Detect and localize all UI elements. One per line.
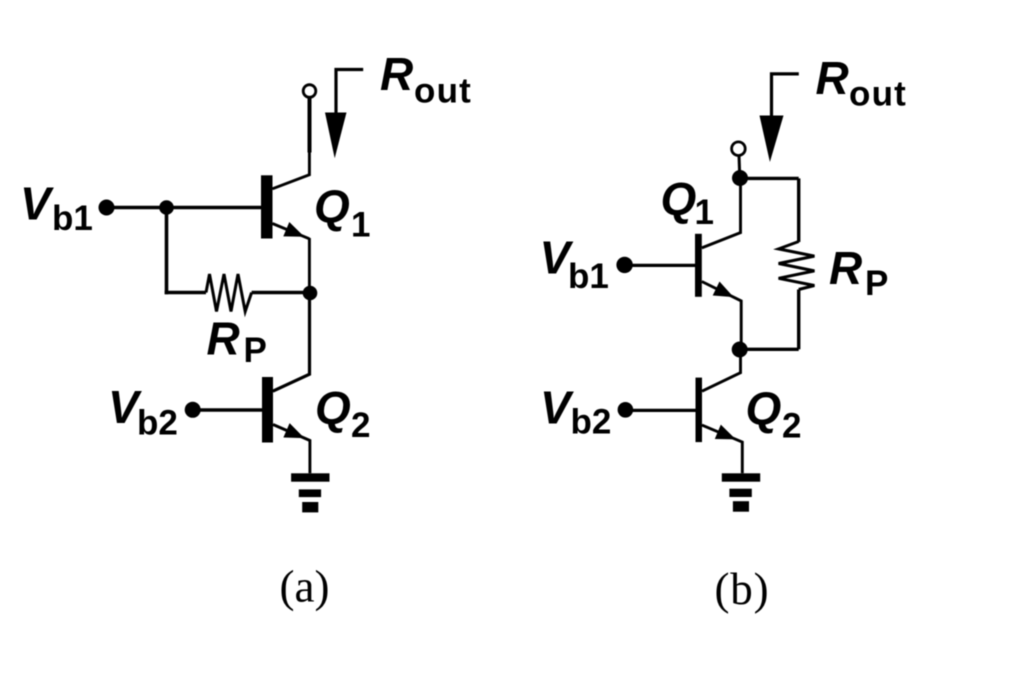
label RP (a): [207, 313, 267, 371]
svg-text:1: 1: [351, 205, 370, 244]
label RP (b): [829, 242, 888, 303]
label Q2 (a): [315, 382, 370, 445]
resistor RP (b) zigzag: [779, 242, 815, 290]
label Vb1 (b): [540, 232, 609, 297]
transistor Q1 (a): emitter lead with arrow: [272, 222, 309, 293]
svg-text:V: V: [20, 178, 54, 230]
svg-text:P: P: [244, 331, 267, 370]
label Vb1 (a): [20, 178, 93, 239]
svg-text:b2: b2: [571, 403, 612, 442]
svg-text:(b): (b): [715, 564, 770, 614]
svg-text:P: P: [865, 264, 888, 303]
label Q1 (a): [314, 181, 370, 245]
wire node down to Q2 (a) + transistor Q2 (a) collector lead: [273, 293, 310, 391]
wire output vertical (a): [308, 98, 312, 153]
terminal dot Vb1 (a): [99, 200, 115, 216]
transistor Q1 (b): collector lead: [702, 178, 741, 248]
wire circle to node (b): [738, 156, 742, 179]
transistor Q1 (b): emitter lead with arrow: [702, 282, 741, 350]
svg-text:2: 2: [351, 406, 370, 445]
Rout probe arrow (b): [760, 74, 799, 162]
wire Vb1 to base (a): [107, 206, 262, 210]
terminal dot Vb1 (b): [616, 257, 632, 273]
svg-text:R: R: [829, 242, 862, 294]
wire output node to RP top (b): [740, 177, 799, 180]
terminal dot Vb2 (b): [618, 402, 634, 418]
wire base node down (a): [165, 208, 169, 295]
label Rout (b): [816, 52, 908, 114]
svg-text:Q: Q: [661, 173, 697, 225]
transistor Q2 (a): emitter lead with arrow: [273, 423, 310, 473]
svg-text:(a): (a): [280, 562, 330, 612]
wire Vb2 to base (a): [193, 408, 262, 412]
Rout probe arrow (a): [325, 70, 363, 159]
wire RP bottom to node (b): [740, 348, 799, 351]
transistor Q2 (b): emitter lead with arrow: [702, 425, 742, 474]
svg-text:R: R: [380, 48, 413, 100]
transistor Q1 (a): base bar: [261, 175, 273, 238]
wire RP top vertical (b): [797, 178, 800, 242]
svg-text:b1: b1: [52, 199, 93, 238]
svg-text:Q: Q: [746, 382, 782, 434]
svg-text:1: 1: [695, 193, 714, 232]
label Q2 (b): [746, 382, 802, 445]
junction dot output node (b): [732, 170, 748, 186]
transistor Q2 (b): collector lead: [702, 350, 741, 392]
svg-text:Q: Q: [315, 382, 351, 434]
svg-text:b2: b2: [137, 404, 178, 443]
label Q1 (b): [661, 173, 714, 232]
svg-text:out: out: [414, 72, 472, 111]
label Vb2 (a): [108, 381, 178, 443]
transistor Q1 (a): collector lead: [272, 150, 309, 189]
transistor Q2 (a): base bar: [262, 377, 273, 443]
svg-text:R: R: [816, 52, 849, 104]
terminal dot Vb2 (a): [185, 402, 201, 418]
node output terminal (b) open circle: [732, 142, 746, 156]
wire Vb2 to base (b): [625, 409, 695, 412]
wire Vb1 to base (b): [625, 264, 695, 267]
svg-text:out: out: [849, 75, 907, 114]
transistor Q2 (b): base bar: [696, 378, 703, 443]
transistor Q1 (b): base bar: [695, 234, 702, 297]
ground (a): [291, 473, 329, 512]
label Vb2 (b): [540, 382, 611, 442]
wire RP bottom vertical (b): [797, 290, 800, 350]
svg-text:b1: b1: [568, 257, 609, 296]
junction dot emitter node (a): [303, 286, 318, 301]
junction dot emitter node (b): [732, 342, 748, 358]
resistor RP (a) zigzag: [206, 274, 252, 312]
junction dot base node (a): [159, 200, 174, 215]
node output terminal (a) open circle: [303, 85, 316, 98]
wire resistor to node (a): [252, 291, 311, 295]
svg-text:R: R: [207, 313, 240, 365]
svg-text:2: 2: [782, 406, 801, 445]
label Rout (a): [380, 48, 472, 111]
ground (b): [722, 473, 760, 511]
svg-text:V: V: [540, 382, 574, 434]
wire to resistor (a): [165, 291, 206, 295]
svg-text:Q: Q: [314, 181, 350, 233]
